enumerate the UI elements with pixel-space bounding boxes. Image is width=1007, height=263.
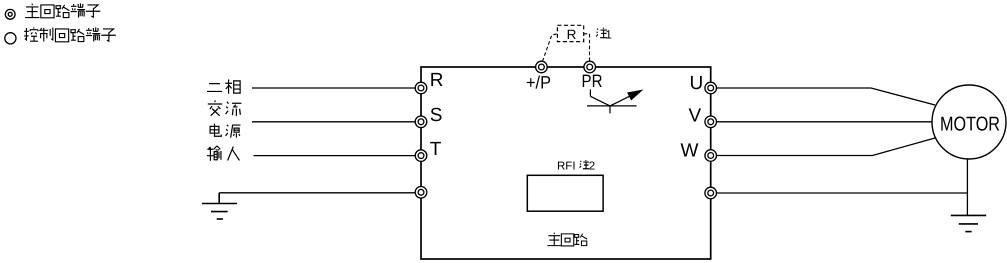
ground right (motor) <box>951 215 986 231</box>
wire V output <box>716 121 932 123</box>
svg-text:V: V <box>689 105 702 126</box>
terminal +/P <box>536 61 548 73</box>
dashed wire +/P to R <box>543 34 558 62</box>
terminal earth right <box>705 187 717 199</box>
wire R input <box>252 87 416 89</box>
svg-text:1: 1 <box>605 28 612 42</box>
svg-text:PR: PR <box>582 71 603 91</box>
terminal T <box>415 150 427 162</box>
svg-text:T: T <box>430 139 442 160</box>
label 主回路 (main circuit) <box>547 233 587 246</box>
terminal S <box>415 116 427 128</box>
terminal U <box>705 82 717 94</box>
terminal R <box>415 82 427 94</box>
note1 注1 <box>596 28 607 38</box>
legend main-circuit terminal symbol <box>5 9 15 19</box>
legend control-circuit terminal symbol <box>5 33 16 44</box>
RFI box <box>527 175 603 211</box>
inverter main box <box>421 67 711 259</box>
legend label 主回路端子 <box>25 3 100 18</box>
motor M1 <box>932 85 1006 159</box>
wire motor to ground <box>966 159 968 215</box>
svg-text:W: W <box>681 140 699 161</box>
wire S input <box>252 121 416 123</box>
svg-text:S: S <box>430 105 443 126</box>
label 交流 <box>208 100 242 115</box>
dashed wire R to PR <box>584 34 590 62</box>
svg-text:R: R <box>567 27 577 42</box>
brake resistor dashed box R <box>557 25 583 41</box>
ground left <box>202 193 237 219</box>
svg-text:U: U <box>690 73 704 94</box>
wire T input <box>254 155 416 157</box>
brake chopper transistor symbol <box>587 89 637 113</box>
label 二相 <box>207 80 240 94</box>
terminal earth left <box>415 187 427 199</box>
wire earth input <box>219 192 415 194</box>
svg-text:2: 2 <box>589 161 595 173</box>
svg-text:+/P: +/P <box>526 73 551 93</box>
legend label 控制回路端子 <box>24 27 116 42</box>
arrow head <box>627 90 643 101</box>
svg-text:RFI: RFI <box>557 161 576 173</box>
label 输入 <box>207 146 239 161</box>
terminal PR <box>584 61 596 73</box>
terminal V <box>705 116 717 128</box>
svg-text:MOTOR: MOTOR <box>940 114 1000 136</box>
wire W output <box>716 138 935 156</box>
label 电源 <box>210 124 240 138</box>
wire U output <box>716 88 935 105</box>
wire earth output <box>716 192 967 194</box>
svg-text:R: R <box>430 70 444 91</box>
terminal W <box>705 150 717 162</box>
